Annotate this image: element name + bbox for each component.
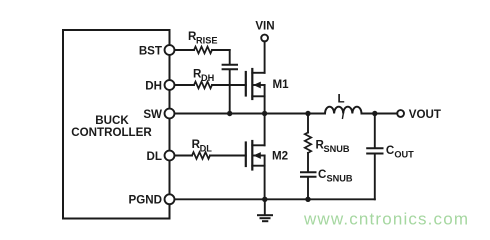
svg-text:DL: DL	[147, 150, 162, 163]
svg-text:M1: M1	[273, 78, 290, 91]
svg-text:SW: SW	[143, 108, 162, 121]
svg-text:DL: DL	[200, 144, 213, 154]
svg-text:SNUB: SNUB	[327, 174, 353, 184]
svg-text:CONTROLLER: CONTROLLER	[71, 126, 152, 139]
svg-text:RISE: RISE	[196, 36, 217, 46]
svg-text:OUT: OUT	[394, 150, 414, 160]
svg-text:L: L	[337, 93, 344, 106]
svg-text:BST: BST	[139, 44, 162, 57]
svg-text:VIN: VIN	[255, 20, 274, 33]
svg-text:M2: M2	[272, 149, 288, 162]
svg-text:PGND: PGND	[129, 194, 163, 207]
svg-text:SNUB: SNUB	[324, 144, 350, 154]
svg-text:DH: DH	[201, 73, 215, 83]
svg-text:DH: DH	[145, 79, 162, 92]
svg-text:VOUT: VOUT	[409, 108, 441, 121]
svg-text:www.cntronics.com: www.cntronics.com	[303, 209, 468, 228]
